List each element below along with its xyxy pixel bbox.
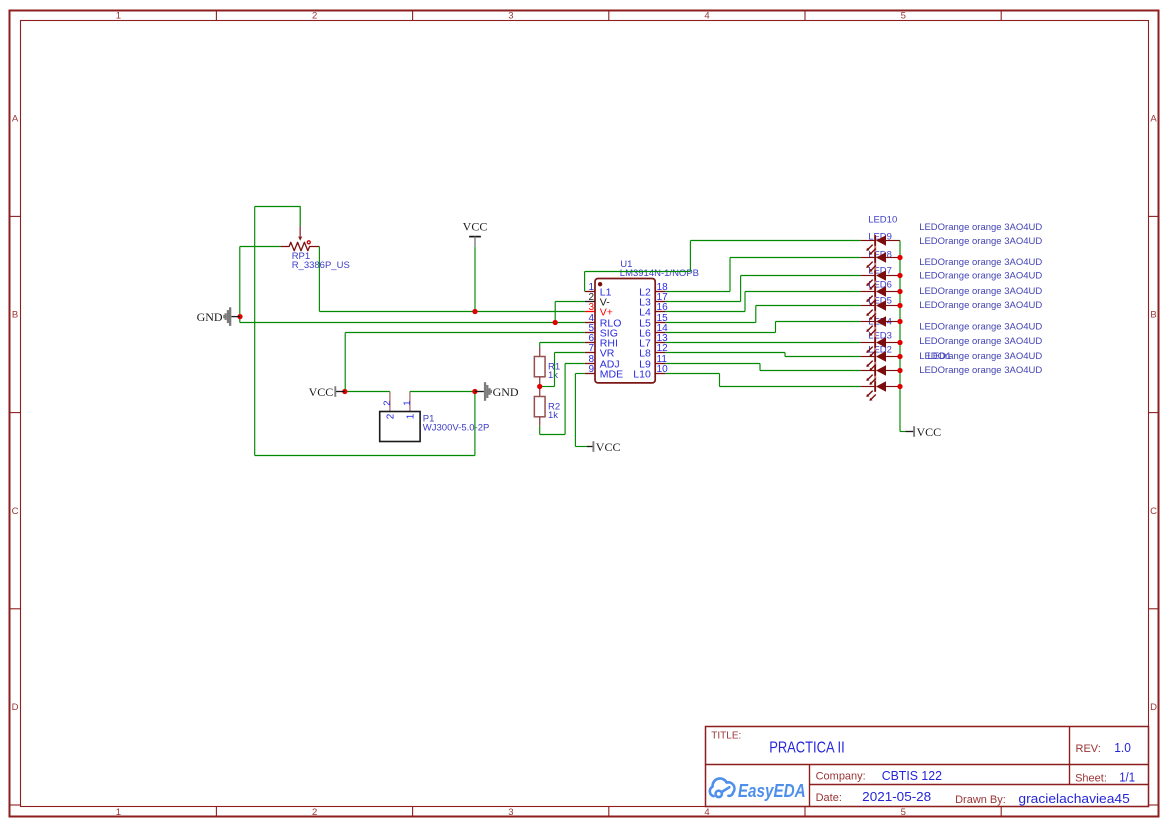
svg-text:1.0: 1.0	[1114, 741, 1131, 755]
svg-text:LED1: LED1	[928, 351, 952, 362]
svg-text:CBTIS 122: CBTIS 122	[882, 768, 942, 783]
svg-text:A: A	[12, 113, 19, 124]
svg-text:WJ300V-5.0-2P: WJ300V-5.0-2P	[423, 422, 490, 433]
svg-text:D: D	[12, 702, 19, 713]
svg-text:VCC: VCC	[309, 385, 334, 399]
svg-text:1: 1	[116, 807, 121, 818]
svg-text:MDE: MDE	[600, 368, 623, 380]
svg-text:3: 3	[508, 10, 513, 21]
svg-text:L10: L10	[633, 368, 651, 380]
svg-text:2021-05-28: 2021-05-28	[862, 789, 931, 804]
svg-text:Date:: Date:	[816, 792, 842, 804]
svg-text:1: 1	[405, 413, 416, 419]
svg-text:LED3: LED3	[868, 331, 892, 342]
svg-text:C: C	[12, 506, 19, 517]
svg-text:B: B	[1150, 310, 1156, 321]
svg-text:B: B	[12, 310, 18, 321]
svg-text:D: D	[1150, 702, 1157, 713]
svg-text:4: 4	[704, 807, 709, 818]
svg-text:3: 3	[508, 807, 513, 818]
svg-text:2: 2	[382, 401, 393, 406]
svg-text:1: 1	[116, 10, 121, 21]
svg-text:REV:: REV:	[1076, 743, 1101, 755]
svg-text:LED10: LED10	[868, 215, 897, 226]
svg-text:PRACTICA II: PRACTICA II	[769, 740, 845, 757]
svg-text:LEDOrange orange 3AO4UD: LEDOrange orange 3AO4UD	[919, 300, 1042, 311]
svg-text:Company:: Company:	[816, 770, 866, 782]
svg-text:1k: 1k	[548, 410, 558, 421]
svg-text:A: A	[1150, 113, 1157, 124]
svg-text:1: 1	[402, 401, 413, 406]
svg-text:2: 2	[312, 807, 317, 818]
svg-text:gracielachaviea45: gracielachaviea45	[1018, 791, 1129, 806]
svg-text:TITLE:: TITLE:	[711, 731, 741, 742]
svg-text:VCC: VCC	[463, 219, 488, 233]
svg-text:1k: 1k	[548, 370, 558, 381]
svg-text:GND: GND	[197, 310, 223, 324]
svg-text:1/1: 1/1	[1119, 771, 1135, 785]
svg-text:LEDOrange orange 3AO4UD: LEDOrange orange 3AO4UD	[919, 336, 1042, 347]
svg-text:4: 4	[704, 10, 709, 21]
svg-text:LEDOrange orange 3AO4UD: LEDOrange orange 3AO4UD	[919, 257, 1042, 268]
svg-text:C: C	[1150, 506, 1157, 517]
svg-text:5: 5	[901, 807, 906, 818]
svg-text:EasyEDA: EasyEDA	[738, 781, 806, 801]
svg-text:LEDOrange orange 3AO4UD: LEDOrange orange 3AO4UD	[919, 222, 1042, 233]
svg-text:LEDOrange orange 3AO4UD: LEDOrange orange 3AO4UD	[919, 365, 1042, 376]
svg-text:Sheet:: Sheet:	[1075, 773, 1107, 785]
svg-text:2: 2	[385, 413, 396, 419]
svg-text:LEDOrange orange 3AO4UD: LEDOrange orange 3AO4UD	[919, 286, 1042, 297]
svg-text:R_3386P_US: R_3386P_US	[292, 260, 350, 271]
svg-text:VCC: VCC	[917, 425, 942, 439]
svg-text:LEDOrange orange 3AO4UD: LEDOrange orange 3AO4UD	[919, 236, 1042, 247]
svg-text:GND: GND	[493, 385, 519, 399]
svg-text:9: 9	[588, 364, 594, 375]
svg-text:LM3914N-1/NOPB: LM3914N-1/NOPB	[620, 268, 699, 279]
svg-text:7: 7	[588, 343, 594, 354]
svg-text:LEDOrange orange 3AO4UD: LEDOrange orange 3AO4UD	[919, 271, 1042, 282]
svg-text:3: 3	[588, 302, 594, 313]
svg-text:Drawn By:: Drawn By:	[955, 794, 1006, 806]
svg-text:LEDOrange orange 3AO4UD: LEDOrange orange 3AO4UD	[919, 322, 1042, 333]
svg-text:2: 2	[312, 10, 317, 21]
svg-text:5: 5	[901, 10, 906, 21]
svg-text:VCC: VCC	[596, 440, 621, 454]
